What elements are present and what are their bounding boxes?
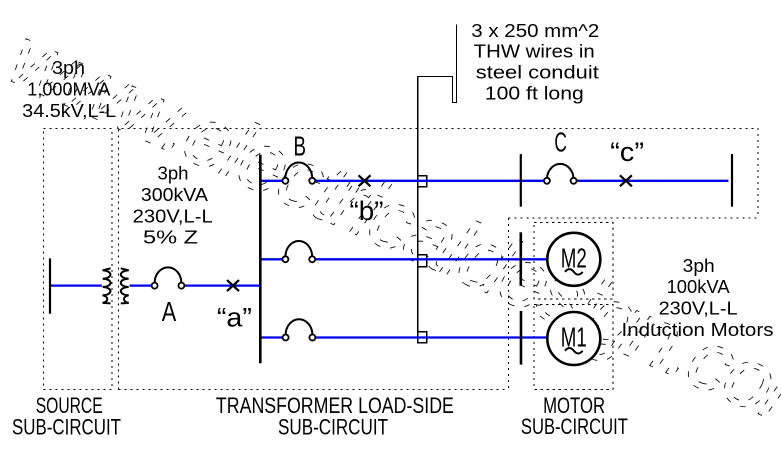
svg-text:3ph: 3ph xyxy=(52,57,85,78)
svg-text:3ph: 3ph xyxy=(683,255,715,276)
svg-text:3ph: 3ph xyxy=(158,163,189,184)
svg-text:Induction Motors: Induction Motors xyxy=(622,319,774,340)
svg-text:steel conduit: steel conduit xyxy=(476,61,599,82)
svg-text:100 ft long: 100 ft long xyxy=(485,83,584,104)
svg-text:34.5kV,L-L: 34.5kV,L-L xyxy=(22,100,116,121)
svg-text:“b”: “b” xyxy=(350,196,384,226)
svg-text:300kVA: 300kVA xyxy=(141,184,209,205)
svg-text:THW wires in: THW wires in xyxy=(474,40,595,61)
svg-text:230V,L-L: 230V,L-L xyxy=(659,298,738,319)
svg-text:SUB-CIRCUIT: SUB-CIRCUIT xyxy=(521,414,628,439)
svg-text:B: B xyxy=(294,130,307,161)
svg-text:M1: M1 xyxy=(561,321,587,352)
svg-text:C: C xyxy=(554,127,567,158)
svg-text:230V,L-L: 230V,L-L xyxy=(133,205,213,226)
svg-text:SUB-CIRCUIT: SUB-CIRCUIT xyxy=(278,415,388,440)
svg-text:100kVA: 100kVA xyxy=(667,276,731,297)
svg-text:5% Z: 5% Z xyxy=(143,227,198,248)
svg-text:SUB-CIRCUIT: SUB-CIRCUIT xyxy=(12,415,121,440)
svg-text:A: A xyxy=(162,296,177,327)
svg-text:“c”: “c” xyxy=(610,137,644,167)
svg-text:M2: M2 xyxy=(561,243,587,274)
svg-text:3 x 250 mm^2: 3 x 250 mm^2 xyxy=(471,20,599,41)
svg-text:1,000MVA: 1,000MVA xyxy=(27,79,111,100)
svg-text:“a”: “a” xyxy=(217,303,252,333)
